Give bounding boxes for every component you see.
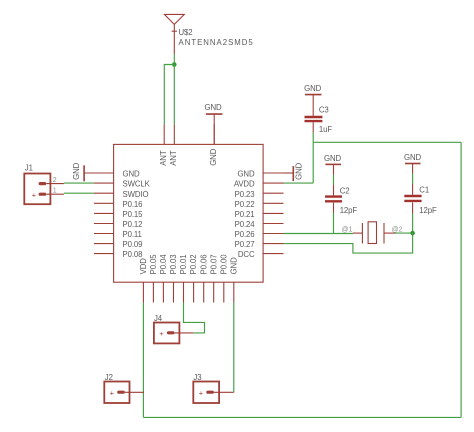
wire P0.01 to J4 <box>184 303 205 333</box>
wire antenna net vertical <box>173 54 175 65</box>
svg-text:GND: GND <box>209 148 218 165</box>
svg-text:+: + <box>159 329 164 338</box>
wire VDD bottom run <box>143 416 461 418</box>
pin GND U1 top <box>209 124 218 166</box>
svg-text:P0.11: P0.11 <box>123 230 142 239</box>
svg-text:SWDIO: SWDIO <box>123 190 149 199</box>
pin SWCLK U1 left <box>94 180 151 189</box>
wire C2 to ground <box>333 175 335 186</box>
pin P0.12 U1 left <box>94 220 142 229</box>
svg-text:1uF: 1uF <box>319 125 332 134</box>
wire C1 to ground <box>412 174 414 185</box>
ground symbol right of AVDD pin <box>284 162 304 181</box>
svg-text:DCC: DCC <box>238 250 255 259</box>
pin ANT U1 top 2 <box>169 124 178 166</box>
wire C3 to VDD loop <box>312 133 314 184</box>
svg-text:P0.02: P0.02 <box>189 255 198 275</box>
svg-text:12pF: 12pF <box>419 206 437 215</box>
svg-text:P0.01: P0.01 <box>179 255 188 275</box>
svg-text:VDD: VDD <box>139 258 148 275</box>
antenna U$2 <box>164 14 184 54</box>
svg-text:GND: GND <box>324 154 341 163</box>
svg-text:C2: C2 <box>340 186 350 195</box>
svg-text:@2: @2 <box>392 226 403 233</box>
svg-text:2: 2 <box>53 177 57 184</box>
wire crystal to junction <box>395 232 413 234</box>
wire antenna net to ANT pin 1 <box>164 65 174 125</box>
ground symbol above C2 <box>324 154 341 175</box>
svg-text:GND: GND <box>237 170 254 179</box>
pin P0.07 U1 bottom <box>209 255 218 303</box>
pin P0.03 U1 bottom <box>169 255 178 303</box>
svg-text:@1: @1 <box>342 226 353 233</box>
wire AVDD to C3 <box>284 182 314 184</box>
wire P0.27 loop <box>284 233 413 253</box>
svg-text:P0.15: P0.15 <box>123 210 144 219</box>
svg-text:C3: C3 <box>319 105 329 114</box>
svg-text:GND: GND <box>204 103 221 112</box>
wire GND pin to J3 <box>233 303 235 393</box>
svg-text:SWCLK: SWCLK <box>123 180 151 189</box>
pin GND U1 left <box>94 170 140 179</box>
capacitor C1 <box>404 184 421 214</box>
svg-text:GND: GND <box>304 84 321 93</box>
capacitor C2 <box>325 185 342 213</box>
pin P0.04 U1 bottom <box>159 254 168 303</box>
wire VDD pin drop <box>142 303 144 418</box>
svg-text:P0.16: P0.16 <box>123 200 143 209</box>
pin GND U1 right <box>237 170 283 179</box>
svg-text:GND: GND <box>123 170 140 179</box>
pin P0.09 U1 left <box>94 240 142 249</box>
svg-text:J4: J4 <box>154 314 163 323</box>
svg-text:GND: GND <box>295 162 304 179</box>
ground symbol above C3 <box>304 84 321 116</box>
wire VDD right run <box>460 142 462 417</box>
svg-text:P0.05: P0.05 <box>149 254 158 275</box>
wire C2 to crystal net <box>333 213 335 233</box>
pin DCC U1 right <box>238 250 284 259</box>
svg-text:P0.27: P0.27 <box>235 240 255 249</box>
svg-text:+: + <box>32 190 37 199</box>
svg-text:J2: J2 <box>105 373 113 382</box>
connector J3 <box>193 382 234 404</box>
svg-text:GND: GND <box>229 257 238 274</box>
pin GND U1 bottom <box>229 257 238 303</box>
svg-text:ANTENNA2SMD5: ANTENNA2SMD5 <box>179 38 254 47</box>
pin ANT U1 top 1 <box>159 124 168 166</box>
junction antenna node <box>172 62 177 67</box>
svg-text:P0.04: P0.04 <box>159 254 168 275</box>
wire C1 to crystal junction <box>412 214 414 234</box>
svg-text:+: + <box>110 389 115 398</box>
svg-text:J3: J3 <box>193 373 201 382</box>
svg-text:J1: J1 <box>25 163 33 172</box>
svg-text:P0.12: P0.12 <box>123 220 143 229</box>
svg-text:U$2: U$2 <box>179 28 193 37</box>
pin P0.22 U1 right <box>235 200 284 209</box>
pin P0.00 U1 bottom <box>219 254 228 303</box>
svg-text:P0.09: P0.09 <box>123 240 143 249</box>
pin P0.23 U1 right <box>235 190 284 199</box>
svg-text:P0.23: P0.23 <box>235 190 255 199</box>
svg-text:+: + <box>199 389 204 398</box>
pin AVDD U1 right <box>234 180 284 189</box>
svg-text:P0.21: P0.21 <box>235 210 255 219</box>
pin P0.24 U1 right <box>235 220 284 229</box>
svg-text:AVDD: AVDD <box>234 180 255 189</box>
capacitor C3 <box>305 117 323 133</box>
pin P0.21 U1 right <box>235 210 284 219</box>
svg-text:P0.00: P0.00 <box>219 254 228 275</box>
pin P0.15 U1 left <box>94 210 143 219</box>
pin VDD U1 bottom <box>139 258 148 303</box>
wire P0.26 to crystal <box>284 233 353 235</box>
pin P0.02 U1 bottom <box>189 255 198 303</box>
wire antenna net to ANT pin 2 <box>173 65 175 125</box>
pin P0.05 U1 bottom <box>149 254 158 303</box>
wire VDD top run <box>313 141 461 143</box>
junction crystal C1 node <box>410 231 415 236</box>
svg-text:P0.07: P0.07 <box>209 255 218 275</box>
svg-text:GND: GND <box>72 162 81 179</box>
svg-text:1: 1 <box>53 188 57 195</box>
pin P0.16 U1 left <box>94 200 142 209</box>
pin P0.11 U1 left <box>94 230 142 239</box>
pin P0.27 U1 right <box>235 240 284 249</box>
svg-text:P0.06: P0.06 <box>199 255 208 275</box>
ground symbol above IC <box>204 103 222 144</box>
pin P0.06 U1 bottom <box>199 255 208 303</box>
ground symbol left of IC <box>72 162 114 181</box>
wire J1 pin1 to SWDIO <box>64 192 94 194</box>
connector J2 <box>104 382 144 404</box>
pin SWDIO U1 left <box>94 190 149 199</box>
pin P0.01 U1 bottom <box>179 255 188 303</box>
pin P0.08 U1 left <box>94 250 142 259</box>
pin P0.26 U1 right <box>235 230 284 239</box>
svg-text:P0.22: P0.22 <box>235 200 255 209</box>
svg-text:GND: GND <box>404 153 421 162</box>
wire J1 pin2 to SWCLK <box>64 182 94 184</box>
svg-text:ANT: ANT <box>159 150 168 166</box>
svg-text:ANT: ANT <box>169 150 178 166</box>
connector J1 <box>24 174 64 205</box>
IC U1 body <box>114 144 264 282</box>
crystal Q1 <box>353 222 395 244</box>
svg-text:P0.08: P0.08 <box>123 250 143 259</box>
svg-text:C1: C1 <box>419 185 429 194</box>
svg-text:P0.26: P0.26 <box>235 230 255 239</box>
svg-text:P0.24: P0.24 <box>235 220 256 229</box>
connector J4 <box>154 323 194 344</box>
svg-text:12pF: 12pF <box>340 206 358 215</box>
ground symbol above C1 <box>404 153 421 174</box>
svg-text:P0.03: P0.03 <box>169 255 178 275</box>
